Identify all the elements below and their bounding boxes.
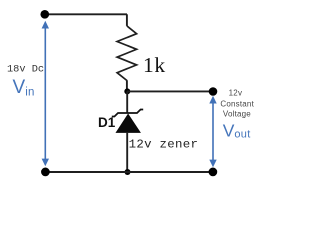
wire bottom rail bbox=[45, 171, 213, 173]
Vin dimension arrow bbox=[42, 21, 49, 167]
node Vout bottom bbox=[209, 168, 218, 177]
wire top rail bbox=[45, 13, 127, 15]
wire diode top lead bbox=[126, 91, 128, 113]
node Vin bottom bbox=[41, 168, 50, 177]
wire resistor bottom lead bbox=[126, 80, 128, 91]
node junction A (resistor/diode/output) bbox=[124, 88, 130, 94]
node junction B (diode/ground rail) bbox=[125, 169, 131, 175]
wire output rail bbox=[127, 90, 213, 92]
resistor R1 1k bbox=[117, 26, 137, 81]
zener diode D1 cathode bar bbox=[112, 110, 143, 117]
svg-text:18v Dc: 18v Dc bbox=[7, 63, 44, 75]
svg-text:12v: 12v bbox=[229, 89, 243, 98]
svg-text:1k: 1k bbox=[143, 53, 166, 77]
svg-text:Voltage: Voltage bbox=[223, 110, 251, 119]
Vout dimension arrow bbox=[209, 96, 216, 168]
zener diode D1 anode triangle bbox=[116, 114, 140, 132]
wire resistor top lead bbox=[126, 14, 128, 26]
svg-text:12v zener: 12v zener bbox=[129, 137, 199, 151]
node Vout top bbox=[209, 87, 218, 96]
svg-text:Constant: Constant bbox=[220, 99, 254, 108]
wire diode bottom lead bbox=[126, 132, 128, 172]
svg-text:D1: D1 bbox=[98, 115, 116, 130]
node Vin top bbox=[40, 10, 49, 19]
